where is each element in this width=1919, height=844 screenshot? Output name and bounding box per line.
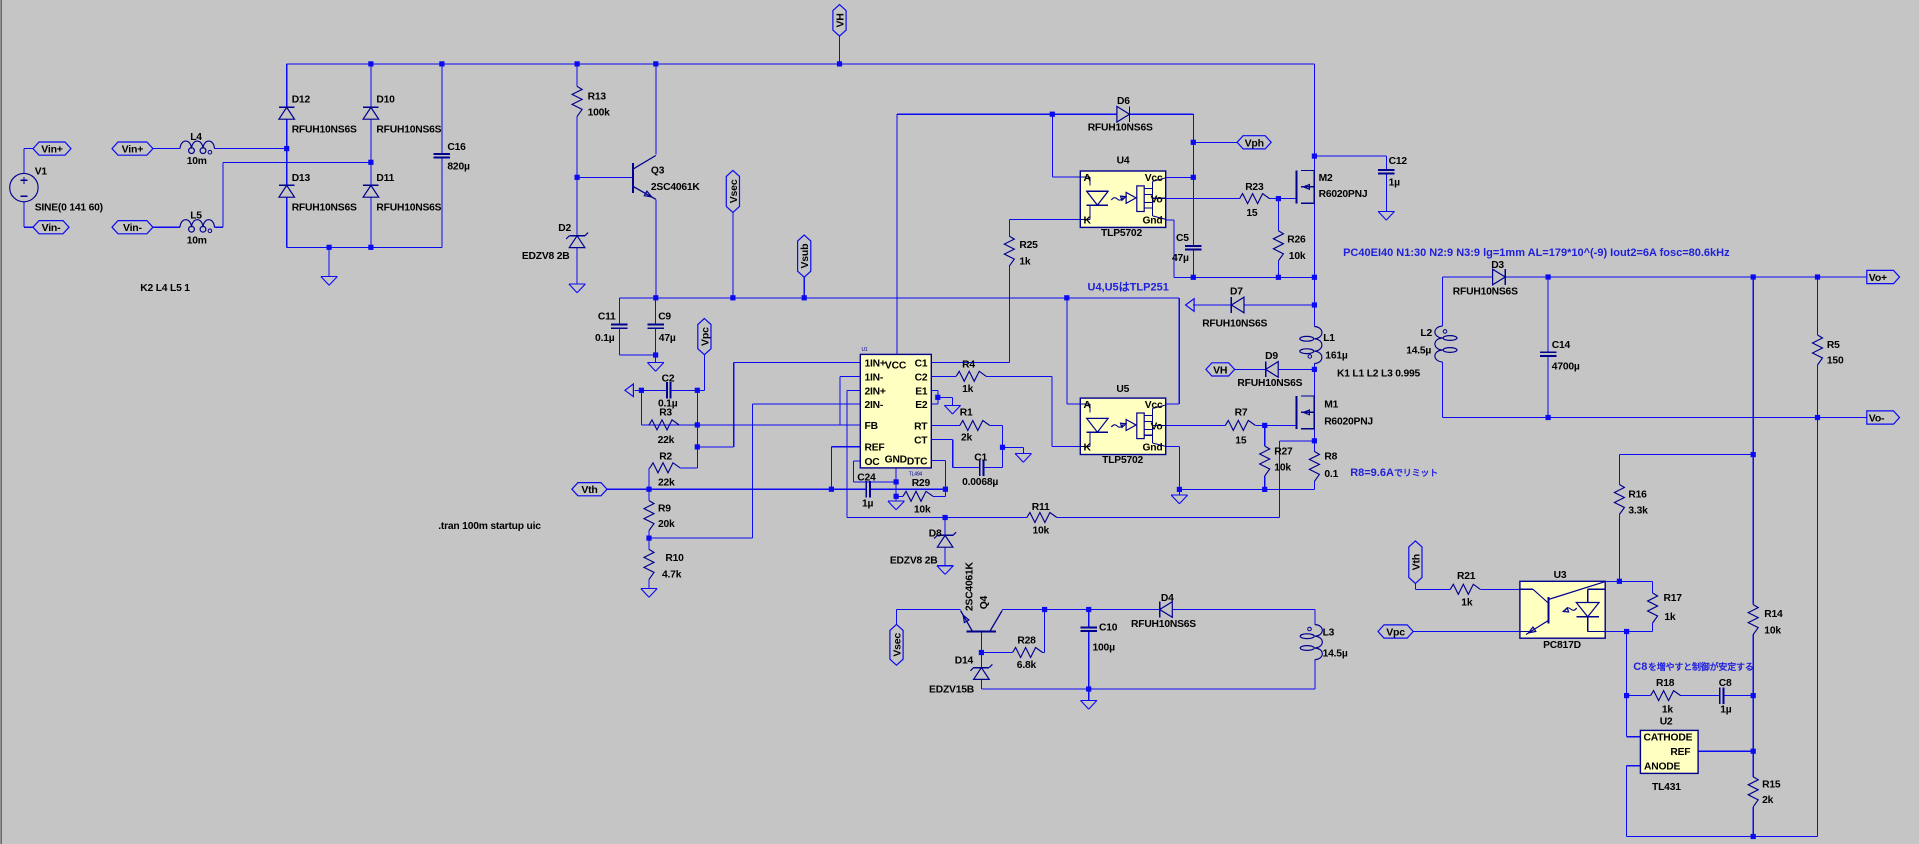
- svg-text:TL431: TL431: [1652, 782, 1681, 793]
- svg-text:Vsec: Vsec: [728, 179, 740, 203]
- svg-text:150: 150: [1827, 355, 1844, 366]
- svg-text:0.1: 0.1: [1324, 469, 1338, 480]
- svg-text:R6020PNJ: R6020PNJ: [1319, 189, 1368, 200]
- svg-text:Vpc: Vpc: [1386, 627, 1405, 639]
- svg-text:RFUH10NS6S: RFUH10NS6S: [1131, 619, 1196, 630]
- svg-text:R25: R25: [1019, 240, 1038, 251]
- svg-text:Gnd: Gnd: [1143, 216, 1163, 227]
- svg-text:D9: D9: [1265, 351, 1278, 362]
- svg-text:R14: R14: [1764, 609, 1783, 620]
- svg-text:2IN+: 2IN+: [865, 386, 886, 397]
- svg-text:L3: L3: [1323, 627, 1335, 638]
- svg-text:100µ: 100µ: [1093, 643, 1116, 654]
- svg-text:VCC: VCC: [885, 360, 907, 371]
- svg-text:SINE(0 141 60): SINE(0 141 60): [35, 203, 103, 214]
- svg-text:REF: REF: [1670, 747, 1690, 758]
- svg-text:10k: 10k: [1764, 626, 1781, 637]
- svg-text:R4: R4: [962, 360, 975, 371]
- svg-text:161µ: 161µ: [1325, 351, 1348, 362]
- svg-text:A: A: [1084, 173, 1092, 184]
- svg-text:R8=9.6A: R8=9.6A: [1350, 467, 1394, 479]
- svg-text:R8: R8: [1324, 452, 1337, 463]
- svg-text:R13: R13: [588, 92, 607, 103]
- svg-text:14.5µ: 14.5µ: [1406, 346, 1431, 357]
- svg-text:Q4: Q4: [979, 595, 990, 609]
- svg-text:1µ: 1µ: [1720, 705, 1732, 716]
- svg-text:4700µ: 4700µ: [1552, 362, 1580, 373]
- svg-text:L5: L5: [190, 210, 202, 221]
- svg-text:C9: C9: [658, 312, 671, 323]
- svg-text:D6: D6: [1117, 96, 1130, 107]
- svg-text:Vo-: Vo-: [1869, 413, 1885, 425]
- svg-text:TLP5702: TLP5702: [1101, 228, 1142, 239]
- svg-text:R3: R3: [659, 408, 672, 419]
- svg-text:ANODE: ANODE: [1644, 762, 1681, 773]
- svg-text:Vo+: Vo+: [1869, 272, 1887, 284]
- svg-text:2SC4061K: 2SC4061K: [964, 561, 975, 611]
- svg-text:OC: OC: [865, 457, 881, 468]
- svg-text:3.3k: 3.3k: [1628, 505, 1648, 516]
- svg-text:FB: FB: [865, 421, 878, 432]
- svg-text:Vin+: Vin+: [41, 144, 63, 156]
- svg-text:15: 15: [1235, 435, 1247, 446]
- svg-text:TL494: TL494: [909, 472, 923, 478]
- svg-text:Vsub: Vsub: [799, 244, 811, 269]
- svg-text:R2: R2: [659, 451, 672, 462]
- svg-text:Vin-: Vin-: [123, 222, 143, 234]
- svg-text:Gnd: Gnd: [1143, 443, 1163, 454]
- svg-text:でリミット: でリミット: [1394, 468, 1438, 478]
- svg-text:Vcc: Vcc: [1145, 173, 1163, 184]
- svg-text:RT: RT: [914, 422, 928, 433]
- svg-text:10k: 10k: [914, 505, 931, 516]
- svg-text:EDZV15B: EDZV15B: [929, 684, 974, 695]
- svg-text:1µ: 1µ: [1389, 178, 1401, 189]
- svg-text:1k: 1k: [962, 384, 974, 395]
- svg-text:M1: M1: [1324, 400, 1338, 411]
- svg-text:Vsec: Vsec: [892, 633, 904, 657]
- svg-text:Vth: Vth: [581, 484, 597, 496]
- svg-text:15: 15: [1246, 208, 1258, 219]
- svg-text:DTC: DTC: [907, 457, 928, 468]
- svg-text:C1: C1: [915, 358, 928, 369]
- svg-text:22k: 22k: [658, 435, 675, 446]
- svg-text:C16: C16: [447, 142, 466, 153]
- svg-text:CATHODE: CATHODE: [1644, 733, 1693, 744]
- svg-text:1µ: 1µ: [862, 498, 874, 509]
- svg-text:U4,U5はTLP251: U4,U5はTLP251: [1088, 281, 1169, 294]
- svg-text:D14: D14: [955, 656, 974, 667]
- svg-text:10k: 10k: [1033, 526, 1050, 537]
- svg-text:Vcc: Vcc: [1145, 400, 1163, 411]
- svg-text:K1 L1 L2 L3 0.995: K1 L1 L2 L3 0.995: [1337, 369, 1420, 380]
- svg-text:10m: 10m: [187, 156, 207, 167]
- svg-text:1k: 1k: [1662, 705, 1674, 716]
- svg-text:C24: C24: [857, 473, 876, 484]
- svg-text:RFUH10NS6S: RFUH10NS6S: [376, 125, 441, 136]
- svg-text:V1: V1: [35, 166, 48, 177]
- svg-text:R10: R10: [665, 553, 684, 564]
- svg-text:1k: 1k: [1664, 612, 1676, 623]
- svg-text:2k: 2k: [961, 433, 973, 444]
- svg-text:D10: D10: [376, 95, 395, 106]
- svg-text:D3: D3: [1491, 260, 1504, 271]
- svg-text:D8: D8: [929, 528, 942, 539]
- svg-text:U3: U3: [1554, 570, 1567, 581]
- svg-text:D12: D12: [292, 95, 311, 106]
- svg-text:1k: 1k: [1461, 598, 1473, 609]
- svg-text:を増やすと制御が安定する: を増やすと制御が安定する: [1648, 661, 1754, 672]
- svg-text:R15: R15: [1762, 780, 1781, 791]
- svg-text:6.8k: 6.8k: [1017, 660, 1037, 671]
- svg-text:PC40EI40 N1:30 N2:9 N3:9 lg=1m: PC40EI40 N1:30 N2:9 N3:9 lg=1mm AL=179*1…: [1343, 247, 1730, 259]
- svg-text:RFUH10NS6S: RFUH10NS6S: [1237, 378, 1302, 389]
- svg-text:C10: C10: [1099, 623, 1118, 634]
- svg-text:R7: R7: [1235, 408, 1248, 419]
- svg-text:E1: E1: [915, 386, 928, 397]
- svg-text:D2: D2: [558, 223, 571, 234]
- svg-text:EDZV8 2B: EDZV8 2B: [890, 556, 938, 567]
- svg-text:RFUH10NS6S: RFUH10NS6S: [376, 203, 441, 214]
- svg-text:U2: U2: [1660, 717, 1673, 728]
- svg-text:R27: R27: [1274, 446, 1293, 457]
- svg-text:R6020PNJ: R6020PNJ: [1324, 417, 1373, 428]
- svg-text:RFUH10NS6S: RFUH10NS6S: [1453, 286, 1518, 297]
- svg-text:1IN-: 1IN-: [865, 372, 884, 383]
- svg-text:R1: R1: [960, 408, 973, 419]
- svg-text:U4: U4: [1117, 155, 1130, 166]
- svg-text:C2: C2: [662, 373, 675, 384]
- svg-text:C8: C8: [1633, 661, 1647, 673]
- svg-text:R28: R28: [1017, 636, 1036, 647]
- svg-text:C5: C5: [1176, 233, 1189, 244]
- svg-text:0.1µ: 0.1µ: [595, 333, 615, 344]
- svg-text:Vin-: Vin-: [42, 222, 62, 234]
- svg-text:100k: 100k: [588, 107, 611, 118]
- svg-text:GND: GND: [885, 454, 907, 465]
- svg-text:R9: R9: [658, 503, 671, 514]
- svg-text:VH: VH: [835, 13, 847, 27]
- svg-text:RFUH10NS6S: RFUH10NS6S: [1202, 319, 1267, 330]
- svg-text:D13: D13: [292, 173, 311, 184]
- svg-text:PC817D: PC817D: [1543, 640, 1581, 651]
- svg-text:2k: 2k: [1762, 795, 1774, 806]
- svg-text:C8: C8: [1719, 678, 1732, 689]
- svg-text:22k: 22k: [658, 478, 675, 489]
- svg-text:L1: L1: [1323, 333, 1335, 344]
- svg-text:4.7k: 4.7k: [662, 569, 682, 580]
- svg-text:D11: D11: [376, 173, 394, 184]
- svg-text:R23: R23: [1245, 182, 1264, 193]
- svg-text:CT: CT: [914, 435, 928, 446]
- svg-text:VH: VH: [1213, 364, 1227, 376]
- svg-text:R16: R16: [1628, 490, 1647, 501]
- svg-text:REF: REF: [865, 443, 885, 454]
- svg-text:R18: R18: [1656, 678, 1675, 689]
- svg-text:K2 L4 L5 1: K2 L4 L5 1: [140, 283, 190, 294]
- svg-text:R29: R29: [912, 478, 931, 489]
- svg-text:E2: E2: [915, 400, 928, 411]
- svg-text:47µ: 47µ: [1172, 253, 1189, 264]
- svg-text:A: A: [1084, 400, 1092, 411]
- svg-text:L4: L4: [190, 132, 202, 143]
- svg-text:EDZV8 2B: EDZV8 2B: [522, 251, 570, 262]
- svg-text:RFUH10NS6S: RFUH10NS6S: [1088, 123, 1153, 134]
- svg-text:C11: C11: [598, 312, 616, 323]
- svg-text:47µ: 47µ: [659, 333, 676, 344]
- svg-text:C14: C14: [1552, 340, 1571, 351]
- svg-text:C2: C2: [915, 372, 928, 383]
- svg-text:10k: 10k: [1289, 251, 1306, 262]
- svg-text:R17: R17: [1664, 593, 1683, 604]
- svg-text:R11: R11: [1032, 502, 1050, 513]
- svg-text:10k: 10k: [1274, 462, 1291, 473]
- svg-text:2SC4061K: 2SC4061K: [651, 182, 701, 193]
- svg-text:Vph: Vph: [1245, 137, 1264, 149]
- svg-text:0.0068µ: 0.0068µ: [962, 477, 998, 488]
- svg-text:14.5µ: 14.5µ: [1323, 649, 1348, 660]
- svg-text:2IN-: 2IN-: [865, 400, 884, 411]
- svg-text:.tran 100m startup uic: .tran 100m startup uic: [438, 521, 541, 532]
- svg-text:D4: D4: [1161, 593, 1174, 604]
- svg-text:Vo: Vo: [1151, 194, 1163, 205]
- svg-text:C1: C1: [974, 452, 987, 463]
- svg-text:K: K: [1084, 216, 1092, 227]
- svg-text:1k: 1k: [1019, 257, 1031, 268]
- svg-text:R26: R26: [1287, 234, 1306, 245]
- svg-text:C12: C12: [1389, 156, 1408, 167]
- svg-text:U1: U1: [862, 347, 868, 353]
- svg-text:Q3: Q3: [651, 165, 665, 176]
- svg-text:1IN+: 1IN+: [865, 358, 886, 369]
- svg-text:10m: 10m: [187, 235, 207, 246]
- svg-text:820µ: 820µ: [447, 162, 470, 173]
- svg-text:U5: U5: [1116, 384, 1129, 395]
- svg-text:Vo: Vo: [1151, 421, 1163, 432]
- svg-text:M2: M2: [1319, 173, 1333, 184]
- svg-text:Vth: Vth: [1410, 554, 1422, 570]
- svg-text:D7: D7: [1230, 287, 1243, 298]
- svg-text:R5: R5: [1827, 340, 1840, 351]
- svg-text:Vpc: Vpc: [699, 327, 711, 346]
- svg-text:L2: L2: [1420, 328, 1432, 339]
- svg-text:RFUH10NS6S: RFUH10NS6S: [292, 203, 357, 214]
- svg-text:R21: R21: [1457, 571, 1476, 582]
- svg-text:20k: 20k: [658, 519, 675, 530]
- svg-text:K: K: [1084, 443, 1092, 454]
- svg-text:Vin+: Vin+: [122, 144, 144, 156]
- svg-text:RFUH10NS6S: RFUH10NS6S: [292, 125, 357, 136]
- svg-text:TLP5702: TLP5702: [1102, 455, 1143, 466]
